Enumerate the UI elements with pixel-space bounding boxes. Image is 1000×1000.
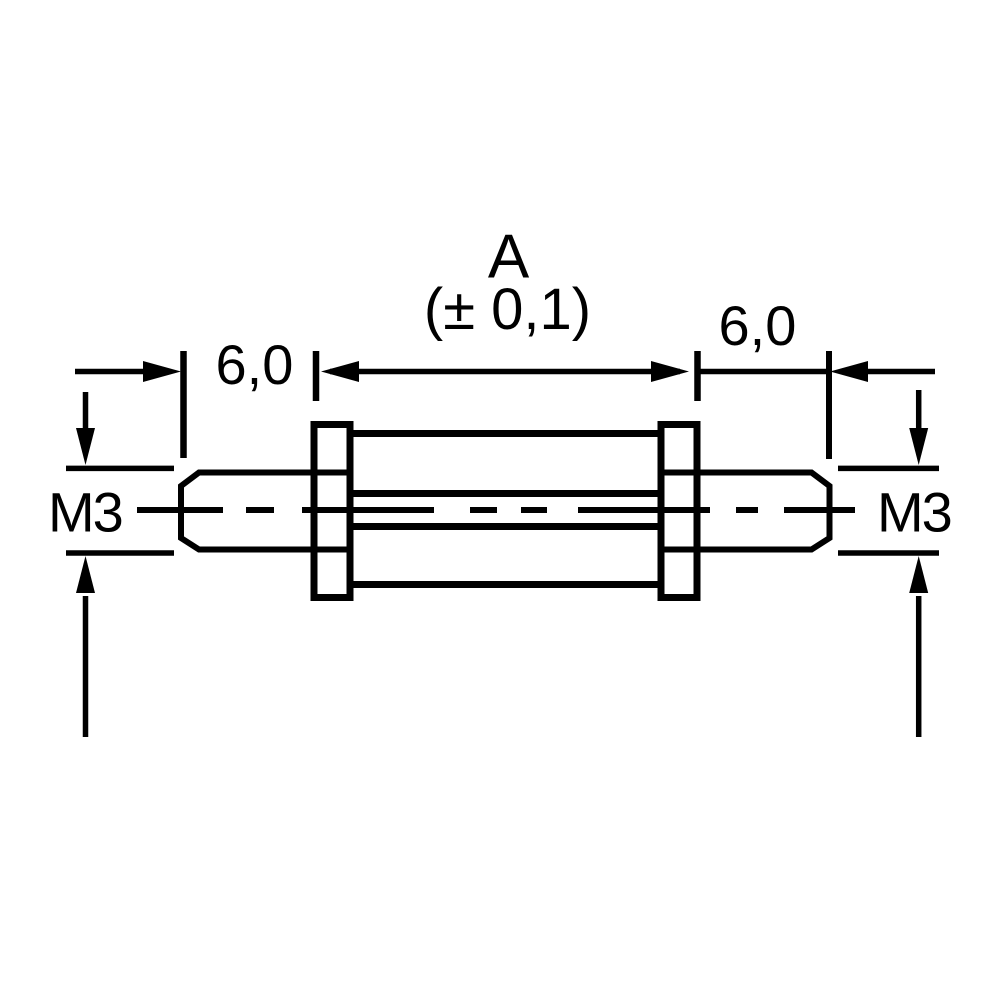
svg-text:M3: M3	[877, 481, 951, 544]
M3 right down arrow	[909, 390, 928, 465]
centerline dash-dot	[137, 507, 855, 513]
M3 left bottom extension line	[66, 550, 174, 556]
dimension 6,0 right tail line	[866, 369, 935, 375]
M3 right up arrow	[909, 556, 928, 737]
svg-text:(± 0,1): (± 0,1)	[424, 277, 591, 342]
dimension A left arrowhead	[321, 361, 359, 382]
M3 left top extension line	[66, 466, 174, 472]
dimension 6,0 right line	[698, 369, 829, 375]
body bottom edge	[350, 581, 661, 588]
svg-text:6,0: 6,0	[216, 333, 294, 396]
right flange	[661, 425, 697, 598]
body hex upper edge	[350, 490, 661, 497]
right stud outline	[661, 473, 830, 550]
left stud outline	[181, 473, 350, 550]
left flange	[314, 425, 350, 598]
dimension A right tick	[694, 351, 701, 401]
body hex lower edge	[350, 523, 661, 530]
M3 right bottom extension line	[838, 550, 939, 556]
svg-text:6,0: 6,0	[719, 294, 797, 357]
M3 right top extension line	[838, 466, 939, 472]
M3 left down arrow	[76, 392, 95, 465]
dimension A right arrowhead	[651, 361, 689, 382]
dimension 6,0 left tick	[180, 351, 187, 458]
dimension A line	[330, 369, 680, 375]
dimension A left tick	[313, 351, 320, 401]
body top edge	[350, 430, 661, 437]
svg-text:M3: M3	[48, 481, 122, 544]
dimension 6,0 right arrowhead	[830, 361, 868, 382]
M3 left up arrow	[76, 556, 95, 737]
dimension 6,0 left leader line	[75, 369, 148, 375]
dimension 6,0 left arrowhead	[143, 361, 181, 382]
dimension 6,0 right extension line	[826, 351, 832, 459]
